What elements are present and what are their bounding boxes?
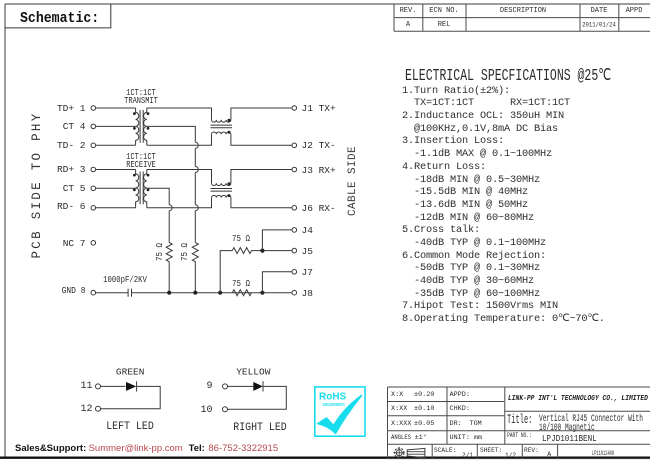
wire T2 secondary CT down xyxy=(147,188,169,242)
title block frame xyxy=(388,387,650,459)
LED D2 color label YELLOW xyxy=(236,367,270,378)
ELECTRICAL SPECS title xyxy=(405,65,611,85)
choke L1 phase dots xyxy=(228,119,231,134)
choke L2 bottom winding xyxy=(212,195,231,197)
third angle projection symbol xyxy=(394,447,425,458)
staff value TOM xyxy=(470,420,482,428)
tolerance text X:XX xyxy=(391,405,407,413)
junction dots on GND bus xyxy=(167,291,264,295)
wire choke L2 to J3 xyxy=(231,170,292,184)
LED D1 green: pin 11 circle xyxy=(96,384,101,389)
wire choke L1 to J1 xyxy=(231,108,292,120)
pin number 9 xyxy=(206,381,212,392)
part no value xyxy=(542,433,597,444)
J7 circle xyxy=(292,270,297,275)
staff text UNIT xyxy=(450,434,470,442)
tolerance text X:X xyxy=(391,391,403,399)
transformer T1 primary winding xyxy=(136,108,139,145)
tolerance value 0.10 xyxy=(414,405,434,413)
pin label RD+ 3 xyxy=(57,164,86,175)
choke L1 core xyxy=(211,125,233,128)
transformer T2 secondary winding xyxy=(144,170,147,208)
J4 circle xyxy=(292,228,297,233)
pin number 10 xyxy=(200,405,212,416)
J6 circle xyxy=(292,206,297,211)
pin number 12 xyxy=(80,404,92,415)
resistor R4 value label 75 ohm xyxy=(232,279,250,289)
J8 circle xyxy=(292,290,297,295)
node label J7 xyxy=(302,267,313,278)
pin 4 circle xyxy=(91,124,96,129)
tolerance text ANGLES xyxy=(391,434,411,442)
footer sales line xyxy=(15,443,86,454)
LED D1 color label GREEN xyxy=(116,367,145,378)
rev table header APPD xyxy=(626,7,643,15)
schematic heading box xyxy=(5,4,111,28)
RoHS check mark xyxy=(318,396,362,434)
pin label CT 4 xyxy=(63,121,86,132)
transformer T2 name label RECEIVE xyxy=(126,160,155,170)
tolerance text X:XXX xyxy=(391,420,411,428)
company/title row divider xyxy=(504,410,650,412)
pin label GND 8 xyxy=(62,285,86,296)
title text line1 xyxy=(539,413,643,425)
resistor R2 value label 75 ohm xyxy=(180,243,190,261)
title label xyxy=(507,412,532,427)
wire choke L2 to J6 xyxy=(231,198,292,208)
pin 8 circle GND xyxy=(91,290,96,295)
LED D2 anode wire xyxy=(228,385,254,387)
resistor R4 horizontal 75ohm on bus xyxy=(232,290,251,296)
doc number xyxy=(592,450,614,458)
transformer T2 ratio label 1CT:1CT xyxy=(126,152,155,162)
T1 phase dots xyxy=(133,112,149,130)
pin label RD- 6 xyxy=(57,201,86,212)
GND bus wire xyxy=(132,292,293,294)
capacitor C1 value label 1000pF/2KV xyxy=(103,275,147,285)
tolerance value 0.05 xyxy=(414,420,434,428)
pin 6 circle xyxy=(91,206,96,211)
ecn value REL xyxy=(438,21,451,29)
LED D2 triangle xyxy=(253,382,262,391)
right side label CABLE SIDE xyxy=(347,145,359,215)
staff text DR xyxy=(450,420,462,428)
wire node to J7 xyxy=(262,272,292,293)
choke L1 top winding xyxy=(212,120,231,122)
sheet cell xyxy=(480,447,502,454)
LED D2 yellow: pin 9 circle xyxy=(223,384,228,389)
staff text APPD xyxy=(450,391,470,399)
resistor R3 value label 75 ohm xyxy=(232,234,250,244)
pin label NC 7 xyxy=(63,238,86,249)
node label J3 RX+ xyxy=(302,165,336,176)
wire T1 secondary bottom to choke L1 xyxy=(147,134,212,145)
company name xyxy=(508,395,648,403)
wire R3 to J5 xyxy=(262,250,292,252)
title text line2 xyxy=(539,422,595,434)
transformer T1 core xyxy=(140,110,143,143)
wire pin1 to T1 primary xyxy=(96,107,136,109)
staff text CHKD xyxy=(450,405,470,413)
pin 3 circle xyxy=(91,167,96,172)
page bottom thick line xyxy=(0,457,650,459)
resistor R1 value label 75 ohm xyxy=(155,243,165,261)
resistor R2 vertical 75ohm xyxy=(192,243,198,293)
rev cell xyxy=(524,447,539,454)
page outer border left xyxy=(4,4,6,457)
rev table header DATE xyxy=(591,7,608,15)
left side label PCB SIDE TO PHY xyxy=(30,111,44,258)
rev table header DESCRIPTION xyxy=(500,7,546,15)
page outer border top xyxy=(5,3,650,5)
transformer T1 ratio label 1CT:1CT xyxy=(126,88,155,98)
J5 circle xyxy=(292,248,297,253)
choke L2 core xyxy=(211,189,233,192)
node label J5 xyxy=(302,246,313,257)
wire T2 secondary top to choke L2 xyxy=(147,170,212,184)
hop of CT1 line over RD- wire xyxy=(195,205,198,211)
transformer T1 secondary winding xyxy=(144,108,147,145)
pin number 11 xyxy=(80,381,92,392)
scale cell xyxy=(434,447,456,454)
hop of CT2 line over RD- wire xyxy=(169,205,172,211)
T2 phase dots xyxy=(133,174,149,192)
date value xyxy=(582,21,616,28)
rev table grid xyxy=(394,4,650,31)
wire pin2 to T1 primary xyxy=(96,144,136,146)
wire pin6 to T2 primary xyxy=(96,207,136,209)
node label J8 xyxy=(302,288,313,299)
pin label TD+ 1 xyxy=(57,103,86,114)
LED D1 cathode bar xyxy=(136,381,138,391)
resistor R3 horizontal 75ohm xyxy=(232,248,262,254)
wire node to J4 xyxy=(262,230,292,251)
node label J4 xyxy=(302,225,313,236)
hop of CT1 line over TD- wire xyxy=(195,142,198,148)
node label J1 TX+ xyxy=(302,103,336,114)
LED D2 name label RIGHT LED xyxy=(233,422,286,434)
wire pin3 to T2 primary xyxy=(96,169,136,171)
capacitor C1 plates xyxy=(128,289,131,297)
rev value A xyxy=(406,21,410,29)
choke L1 bottom winding xyxy=(212,132,231,134)
choke L2 top winding xyxy=(212,183,231,185)
pin label CT 5 xyxy=(63,183,86,194)
rev table header ECN NO. xyxy=(429,7,458,15)
node label J2 TX- xyxy=(302,140,336,151)
LED D1 pin 12 circle xyxy=(96,406,101,411)
rev table header REV. xyxy=(400,7,417,15)
LED D2 loop wire xyxy=(228,386,287,409)
transformer T2 core xyxy=(140,172,143,205)
transformer T2 primary winding xyxy=(136,170,139,208)
pin 1 circle xyxy=(91,106,96,111)
RoHS box xyxy=(315,387,365,436)
tolerance value 0.20 xyxy=(414,391,434,399)
LED D1 loop wire xyxy=(101,386,161,408)
LED D2 pin 10 circle xyxy=(223,407,228,412)
pin 5 circle xyxy=(91,186,96,191)
LED D2 cathode bar xyxy=(262,381,264,391)
staff value mm xyxy=(474,434,482,442)
pin 7 circle NC xyxy=(91,241,96,246)
choke L2 phase dots xyxy=(228,182,231,197)
junction dot R3/J4/J5 node xyxy=(260,249,264,253)
tolerance value 1 deg xyxy=(415,434,427,442)
wire pin4 to T1 primary CT xyxy=(96,125,136,127)
LED D1 name label LEFT LED xyxy=(106,421,154,433)
wire choke L1 to J2 xyxy=(231,134,292,145)
tolerance column dividers xyxy=(447,387,505,444)
wire GND pin to capacitor xyxy=(96,292,129,294)
LED D1 triangle xyxy=(126,382,136,391)
transformer T1 name label TRANSMIT xyxy=(124,96,158,106)
bottom row cell dividers xyxy=(432,444,557,458)
hop of CT1 line over RD+ wire xyxy=(195,167,198,173)
tolerance rows xyxy=(388,402,650,445)
ELECTRICAL SPECS body xyxy=(402,85,605,326)
resistor R1 vertical 75ohm xyxy=(166,243,172,293)
node label J6 RX- xyxy=(302,203,336,214)
J3 circle xyxy=(292,167,297,172)
part no label xyxy=(507,432,532,439)
J2 circle xyxy=(292,143,297,148)
LED D1 anode wire xyxy=(101,385,126,387)
pin label TD- 2 xyxy=(57,140,86,151)
J1 circle xyxy=(292,106,297,111)
riser from bus to R3 xyxy=(220,251,232,293)
heading text "Schematic:" xyxy=(20,10,99,27)
wire T1 secondary CT down xyxy=(147,126,196,242)
wire T1 secondary top to choke L1 xyxy=(147,108,212,120)
pin 2 circle xyxy=(91,143,96,148)
wire pin5 to T2 primary CT xyxy=(96,187,136,189)
wire T2 secondary bottom to choke L2 xyxy=(147,198,212,208)
